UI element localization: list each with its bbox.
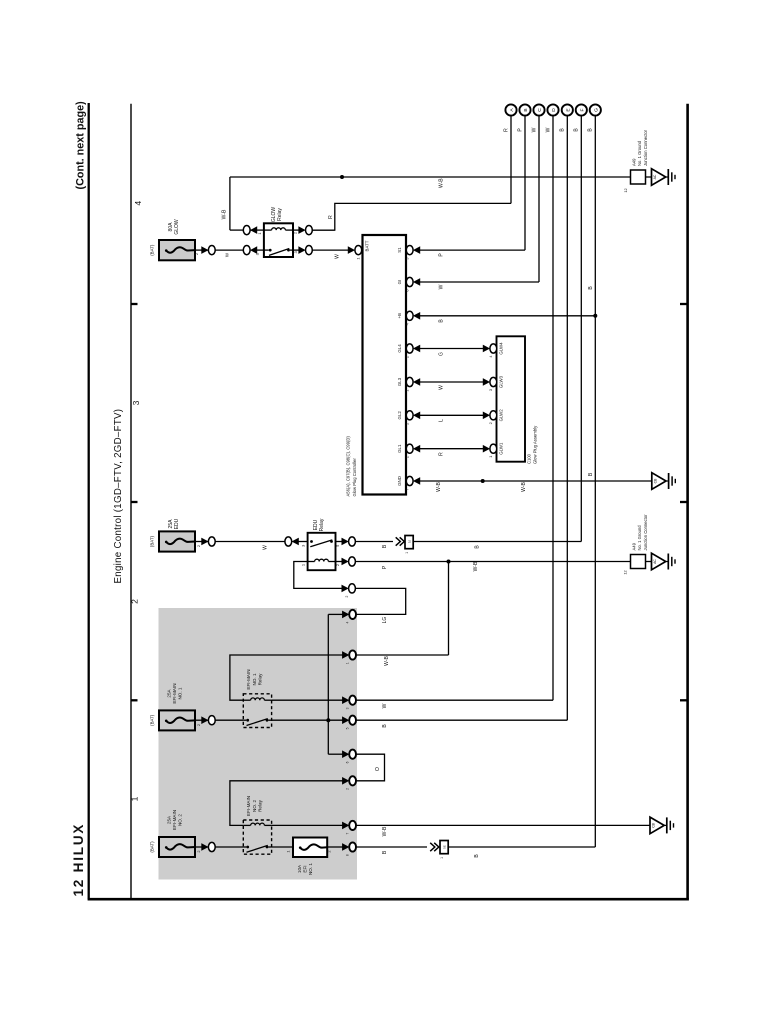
connector pin GND <box>406 476 420 485</box>
glow relay switch lead left <box>264 249 269 251</box>
wire EDU switch output <box>336 541 343 543</box>
wire stub to ground (top) <box>646 176 652 178</box>
wire to EDU relay <box>215 541 284 543</box>
EFI relay1 coil <box>251 698 265 700</box>
wire glow plug 382.0 <box>417 381 484 383</box>
page link box EDU <box>405 536 413 549</box>
svg-text:GLW4: GLW4 <box>499 342 504 355</box>
label EDU Relay <box>313 518 325 531</box>
svg-text:8: 8 <box>346 854 350 856</box>
svg-text:2: 2 <box>327 850 332 852</box>
relay GLOW Relay box <box>264 223 293 257</box>
svg-text:2: 2 <box>196 545 201 547</box>
wire GI to circle C <box>417 281 540 283</box>
junction connector A49 No.1 ground (middle) <box>631 555 646 569</box>
wire EDU B to column F <box>413 541 581 543</box>
label 25A EFI-MAIN NO.2 <box>166 810 182 830</box>
svg-text:1: 1 <box>129 796 139 801</box>
svg-text:1: 1 <box>405 552 409 554</box>
svg-text:7: 7 <box>346 833 350 835</box>
wire glow plug 415.3 <box>417 414 484 416</box>
wire LG row into relay block <box>328 613 343 615</box>
wire EFI relay1 coil to W-B row <box>230 655 343 700</box>
glow relay coil lead right <box>285 229 293 231</box>
svg-text:(BAT): (BAT) <box>150 535 155 547</box>
frame bottom border <box>88 898 689 901</box>
svg-text:W: W <box>263 545 269 550</box>
wire column E (B) <box>566 116 568 721</box>
connector pin GI <box>406 277 420 286</box>
connector circle C <box>533 104 544 115</box>
wire W-B drop to glow relay coil <box>229 177 231 230</box>
wire glow coil output <box>293 229 302 231</box>
wire EDU coil output <box>336 561 343 563</box>
svg-text:F: F <box>579 109 585 112</box>
connector at glow switch output <box>299 246 313 255</box>
wire B row to column G <box>448 846 595 848</box>
svg-text:12: 12 <box>623 570 628 574</box>
connector at glow relay coil left <box>243 226 257 235</box>
svg-text:2: 2 <box>404 423 409 425</box>
label Glow Plug Controller <box>346 436 357 497</box>
svg-text:10A: 10A <box>297 864 302 873</box>
svg-text:3: 3 <box>293 251 298 253</box>
svg-text:NO. 2: NO. 2 <box>178 814 183 826</box>
wire EDU fuse out <box>195 541 208 543</box>
fuse 25A EFI-MAIN NO.2 <box>159 837 195 857</box>
svg-text:1: 1 <box>404 389 409 391</box>
svg-text:LG: LG <box>382 617 388 624</box>
EFI relay1 coil lead left <box>243 699 250 701</box>
svg-text:NO. 1: NO. 1 <box>252 673 257 685</box>
svg-text:A49: A49 <box>631 158 636 166</box>
connector EDU coil loop upper <box>342 584 356 593</box>
svg-text:2: 2 <box>196 724 201 726</box>
connector EFI fuse1 output <box>202 716 216 725</box>
label 80A GLOW <box>168 219 180 235</box>
label A49 No.1 Ground Junction Connector (middle) <box>631 514 648 551</box>
wire column B (P) <box>524 116 526 251</box>
header rule (top rule of landscape page) <box>88 103 90 899</box>
svg-text:AC: AC <box>653 559 657 564</box>
EFI relay1 switch lead right <box>268 719 271 721</box>
ground symbol AC (top) <box>652 169 676 186</box>
svg-text:1: 1 <box>356 257 361 259</box>
svg-text:GND: GND <box>397 476 402 486</box>
svg-text:C100: C100 <box>527 453 532 464</box>
svg-text:3: 3 <box>488 389 493 391</box>
svg-text:C: C <box>537 108 543 112</box>
svg-text:R: R <box>328 215 334 219</box>
label 25A EFI-MAIN NO.1 <box>166 683 182 703</box>
connector circle B <box>519 104 530 115</box>
svg-text:7: 7 <box>404 488 409 490</box>
svg-text:GI: GI <box>397 280 402 285</box>
connector pin +B <box>406 311 420 320</box>
svg-text:L: L <box>438 419 444 422</box>
svg-text:NO. 1: NO. 1 <box>178 687 183 699</box>
connector pin GLW4 <box>483 344 497 353</box>
fuse 25A EDU <box>159 531 195 551</box>
fuse 10A EFI NO.1 <box>293 838 327 858</box>
wire W-B row to ground CB <box>356 824 650 826</box>
connector EDU coil output <box>342 557 356 566</box>
wire into glow relay switch <box>257 249 264 251</box>
wire glow coil to W-B corner <box>230 229 243 231</box>
svg-text:5: 5 <box>346 727 350 729</box>
svg-text:6: 6 <box>346 761 350 763</box>
connector pin GLW2 <box>483 411 497 420</box>
EFI relay2 switch <box>246 845 268 852</box>
ground symbol CB (bottom) <box>650 817 674 834</box>
svg-text:2: 2 <box>345 596 349 598</box>
wire S1 to circle B <box>417 249 526 251</box>
svg-text:B: B <box>523 108 529 111</box>
EFI relay1 switch lead left <box>243 719 246 721</box>
svg-text:6: 6 <box>404 289 409 291</box>
connector EFI fuse2 output <box>202 842 216 851</box>
connector O row upper <box>342 750 356 759</box>
svg-text:3: 3 <box>131 400 141 405</box>
wire column F (B) <box>580 116 582 542</box>
connector W row relay block <box>342 696 356 705</box>
wire column C (W) <box>538 116 540 282</box>
connector pin S1 <box>406 246 420 255</box>
svg-text:G: G <box>438 352 444 356</box>
junction dot on GND wire <box>481 479 485 483</box>
connector pin GL3 <box>406 377 420 386</box>
EDU relay switch <box>310 540 333 547</box>
page link box B row <box>440 841 448 854</box>
wire glow plug 348.5 <box>417 348 484 350</box>
svg-text:EFI: EFI <box>303 865 308 872</box>
svg-text:GL1: GL1 <box>397 444 402 453</box>
zone tick right 2 <box>680 501 688 503</box>
svg-text:EFI-MAIN: EFI-MAIN <box>172 810 177 830</box>
connector EDU switch output <box>342 537 356 546</box>
zone tick right 3 <box>680 699 688 701</box>
label 10A EFI NO.1 <box>297 863 313 875</box>
svg-text:2: 2 <box>335 564 340 566</box>
connector at glow fuse output <box>202 246 216 255</box>
svg-text:D: D <box>551 108 557 112</box>
svg-text:2: 2 <box>293 232 298 234</box>
wire P row to No.1 ground junction <box>356 561 631 563</box>
EDU coil lead left <box>308 561 315 563</box>
svg-text:A49: A49 <box>631 542 636 550</box>
svg-text:NO. 2: NO. 2 <box>252 800 257 812</box>
svg-text:S1: S1 <box>397 247 402 253</box>
zone tick right 1 <box>680 303 688 305</box>
svg-text:GLW3: GLW3 <box>499 375 504 388</box>
svg-text:CB: CB <box>653 478 657 483</box>
svg-text:W-B: W-B <box>473 561 479 571</box>
connector LG row at relay block <box>342 610 356 619</box>
connector pin GLW3 <box>483 377 497 386</box>
svg-text:2: 2 <box>488 422 493 424</box>
wire O row to EFI relay2 coil <box>230 781 343 826</box>
wire O u-turn <box>356 754 384 781</box>
wire W-B top run to No.1 ground junction <box>230 176 631 178</box>
svg-text:CB: CB <box>652 822 656 827</box>
junction dot on W-B top wire <box>340 175 344 179</box>
svg-text:1: 1 <box>488 456 493 458</box>
svg-text:1: 1 <box>257 232 262 234</box>
junction dot P row / W-B riser <box>447 560 451 564</box>
junction dot LG riser / EFI relay output <box>326 718 330 722</box>
svg-text:GL4: GL4 <box>397 344 402 353</box>
wire EFI relay1 coil to connector <box>272 699 343 701</box>
wire W-B row to riser <box>356 654 448 656</box>
label 25A EDU <box>168 518 180 529</box>
svg-text:GL2: GL2 <box>397 411 402 420</box>
svg-text:EDU: EDU <box>174 518 180 529</box>
wire loop down to LG row <box>356 588 406 614</box>
wire glow plug 448.7 <box>417 448 484 450</box>
glow relay coil lead left <box>264 229 272 231</box>
wire column A (R) <box>510 116 512 204</box>
svg-text:W-B: W-B <box>436 482 442 492</box>
page link chevrons EDU <box>396 537 405 545</box>
EFI relay2 switch lead right <box>268 846 271 848</box>
connector B row relay block <box>342 716 356 725</box>
wire into EDU relay <box>299 541 308 543</box>
wire to EFI relay2 switch <box>215 846 243 848</box>
svg-text:W: W <box>438 284 444 289</box>
connector circle G <box>590 104 601 115</box>
glow relay coil <box>272 228 286 230</box>
svg-text:EFI-MAIN: EFI-MAIN <box>246 796 251 816</box>
svg-text:5J: 5J <box>407 539 411 543</box>
connector pin GL2 <box>406 411 420 420</box>
svg-text:W-B: W-B <box>382 826 388 836</box>
svg-text:R: R <box>503 128 509 132</box>
svg-text:AC: AC <box>653 174 657 179</box>
wire 10A fuse to connector <box>327 846 343 848</box>
svg-text:G: G <box>593 108 599 112</box>
fuse 80A GLOW <box>159 240 195 260</box>
EFI relay2 switch lead left <box>243 846 246 848</box>
connector EDU fuse output <box>202 537 216 546</box>
connector O row lower <box>342 776 356 785</box>
wire glow coil output to R corner <box>312 229 334 231</box>
svg-text:W: W <box>438 385 444 390</box>
svg-text:A56(A), C97(B), C98(C), C99(D): A56(A), C97(B), C98(C), C99(D) <box>346 436 351 497</box>
wire column G (B) <box>594 116 596 847</box>
connector circle F <box>576 104 587 115</box>
label A49 No.1 Ground Junction Connector (top) <box>631 129 648 166</box>
svg-text:W-B: W-B <box>439 178 445 188</box>
svg-text:3: 3 <box>346 707 350 709</box>
label GLOW Relay <box>271 207 283 223</box>
wire EFI relay1 switch output <box>272 719 343 721</box>
glow plug controller box U1 <box>363 235 407 495</box>
EFI relay1 coil lead right <box>264 699 271 701</box>
junction dot +B / column G <box>593 314 597 318</box>
svg-text:Relay: Relay <box>257 673 262 685</box>
svg-text:GLOW: GLOW <box>174 219 180 235</box>
svg-text:2: 2 <box>194 253 199 255</box>
wire R from circle A to glow relay coil <box>312 203 512 230</box>
svg-text:Junction Connector: Junction Connector <box>643 514 648 551</box>
svg-text:5: 5 <box>404 258 409 260</box>
svg-text:2: 2 <box>129 599 139 604</box>
EFI relay1 switch <box>246 719 268 726</box>
svg-text:NO. 1: NO. 1 <box>308 863 313 875</box>
zone tick left 2 <box>131 501 138 503</box>
wire GND to ground <box>417 480 652 482</box>
connector at glow coil output <box>299 226 313 235</box>
svg-text:1: 1 <box>286 850 291 852</box>
label EFI-MAIN NO.2 Relay <box>246 796 262 816</box>
wire W-B riser from relay block <box>448 562 450 656</box>
EFI relay2 coil lead left <box>243 824 250 826</box>
connector at glow relay switch input <box>243 246 257 255</box>
connector W-B row relay block <box>342 650 356 659</box>
svg-text:(BAT): (BAT) <box>150 244 155 256</box>
svg-text:25A: 25A <box>166 688 171 697</box>
wire column D (W) <box>552 116 554 701</box>
svg-text:1: 1 <box>404 456 409 458</box>
svg-text:EFI-MAIN: EFI-MAIN <box>172 683 177 703</box>
wire to EFI relay1 switch <box>215 719 243 721</box>
svg-text:BATT: BATT <box>365 240 370 251</box>
connector EDU relay input <box>285 537 299 546</box>
connector pin GL1 <box>406 444 420 453</box>
svg-text:W: W <box>531 127 537 132</box>
wire relay block to O connector <box>328 753 343 755</box>
svg-text:2: 2 <box>404 356 409 358</box>
glow relay switch <box>269 249 290 256</box>
wire glow coil lead <box>250 229 264 231</box>
svg-text:No. 1 Ground: No. 1 Ground <box>637 140 642 166</box>
ground symbol CB (GND row) <box>652 473 676 490</box>
svg-text:EFI-MAIN: EFI-MAIN <box>246 669 251 689</box>
svg-text:W-B: W-B <box>521 482 527 492</box>
connector circle E <box>562 104 573 115</box>
connector circle A <box>505 104 516 115</box>
wire +B to circle G <box>417 315 596 317</box>
svg-text:+B: +B <box>397 313 402 319</box>
svg-text:GLW2: GLW2 <box>499 409 504 422</box>
svg-text:2: 2 <box>196 850 201 852</box>
connector B row lower relay block <box>342 842 356 851</box>
wire glow switch output <box>293 249 302 251</box>
connector pin GLW1 <box>483 444 497 453</box>
svg-text:2: 2 <box>346 788 350 790</box>
relay EFI-MAIN NO.1 box (dashed) <box>243 694 271 728</box>
svg-text:12: 12 <box>623 188 628 192</box>
junction connector A49 No.1 ground (top) <box>631 170 646 184</box>
svg-text:25A: 25A <box>166 815 171 824</box>
label C100 Glow Plug Assembly <box>527 425 538 464</box>
fuse 25A EFI-MAIN NO.1 <box>159 710 195 730</box>
wire EFI relay2 switch output <box>272 846 293 848</box>
svg-text:Glow Plug Assembly: Glow Plug Assembly <box>533 425 538 464</box>
svg-text:5E: 5E <box>442 845 446 849</box>
wire W row to column D <box>356 699 553 701</box>
svg-text:W-B: W-B <box>384 656 390 666</box>
svg-text:W-B: W-B <box>221 209 227 219</box>
wire EFI fuse1 out <box>195 719 208 721</box>
wire glow switch to BATT <box>312 249 348 251</box>
page link chevrons B row <box>430 843 439 851</box>
svg-text:12 HILUX: 12 HILUX <box>71 823 86 897</box>
relay EFI-MAIN NO.2 box (dashed) <box>243 820 271 854</box>
frame right border <box>686 104 689 900</box>
ground symbol AC (middle) <box>652 553 676 570</box>
svg-text:Relay: Relay <box>277 208 283 221</box>
wire B row to link <box>356 846 427 848</box>
svg-text:Glow Plug Controller: Glow Plug Controller <box>352 457 357 496</box>
svg-text:W: W <box>545 127 551 132</box>
wire LG riser in relay block <box>327 614 329 754</box>
zone tick left 3 <box>131 699 138 701</box>
svg-text:W: W <box>335 254 341 259</box>
wire to glow relay input <box>215 249 243 251</box>
relay EDU Relay box <box>308 533 336 570</box>
svg-text:Engine Control (1GD–FTV, 2GD–F: Engine Control (1GD–FTV, 2GD–FTV) <box>113 409 124 584</box>
svg-text:5: 5 <box>335 545 340 547</box>
wire stub to ground (middle) <box>646 561 652 563</box>
svg-text:R: R <box>438 452 444 456</box>
svg-text:4: 4 <box>133 201 143 206</box>
wire glow fuse to connector <box>195 249 208 251</box>
svg-text:1: 1 <box>300 564 305 566</box>
svg-text:W: W <box>382 703 388 708</box>
relay block shaded area <box>159 608 358 880</box>
svg-text:No. 1 Ground: No. 1 Ground <box>637 525 642 551</box>
svg-text:GL3: GL3 <box>397 377 402 386</box>
wire EFI fuse2 out <box>195 846 208 848</box>
EDU coil lead right <box>328 561 335 563</box>
svg-text:Relay: Relay <box>319 518 325 531</box>
svg-text:(BAT): (BAT) <box>150 714 155 726</box>
svg-text:Junction Connector: Junction Connector <box>643 129 648 166</box>
svg-text:1: 1 <box>440 857 444 859</box>
glow plug assembly box <box>497 336 526 461</box>
svg-text:GLW1: GLW1 <box>499 442 504 455</box>
svg-text:Relay: Relay <box>257 799 262 811</box>
wire EDU B to link <box>356 541 393 543</box>
connector W-B row lower relay block <box>342 821 356 830</box>
svg-text:(Cont. next page): (Cont. next page) <box>74 101 86 190</box>
glow relay switch lead right <box>290 249 293 251</box>
svg-text:1: 1 <box>346 662 350 664</box>
svg-text:5: 5 <box>255 253 260 255</box>
svg-text:4: 4 <box>346 622 350 624</box>
svg-text:O: O <box>375 767 381 771</box>
EFI relay2 coil lead right <box>264 824 271 826</box>
EFI relay2 coil <box>251 823 265 825</box>
label EFI-MAIN NO.1 Relay <box>246 669 262 689</box>
svg-text:(BAT): (BAT) <box>150 841 155 853</box>
zone tick left 1 <box>131 303 138 305</box>
connector circle D <box>547 104 558 115</box>
EDU relay coil <box>315 559 329 561</box>
svg-text:3: 3 <box>300 545 305 547</box>
connector pin GL4 <box>406 344 420 353</box>
wire B row to column E <box>356 719 567 721</box>
frame left border <box>130 104 132 900</box>
wire EDU coil to loop connector <box>294 562 343 589</box>
wire EFI relay2 coil to connector <box>272 824 343 826</box>
connector BATT pin <box>348 246 362 255</box>
